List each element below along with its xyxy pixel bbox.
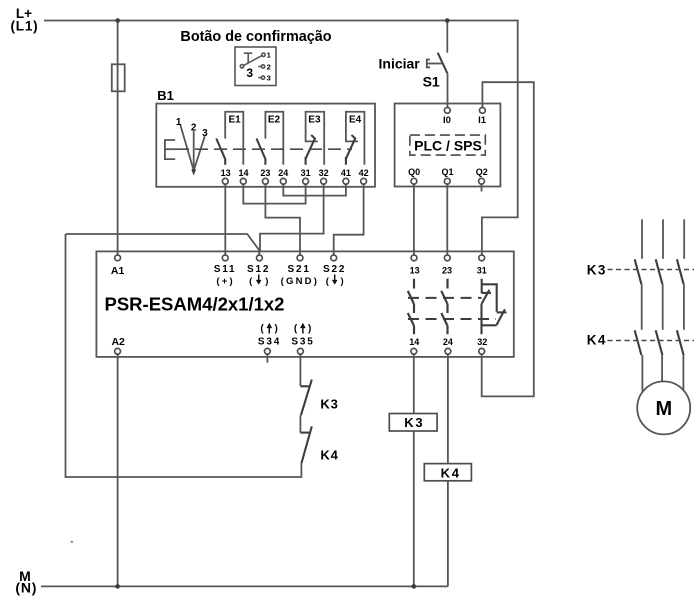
svg-text:S12: S12 (247, 264, 270, 275)
svg-text:K3: K3 (587, 262, 607, 277)
svg-text:Q0: Q0 (408, 167, 420, 177)
svg-text:K3: K3 (320, 397, 338, 412)
svg-text:S34: S34 (258, 336, 281, 347)
svg-text:(L1): (L1) (11, 19, 39, 34)
svg-text:13: 13 (221, 168, 231, 178)
svg-text:(GND): (GND) (281, 276, 319, 287)
svg-text:(N): (N) (15, 580, 37, 596)
svg-text:2: 2 (191, 123, 197, 134)
svg-text:S11: S11 (214, 264, 237, 275)
svg-text:23: 23 (442, 265, 452, 275)
svg-text:13: 13 (410, 265, 420, 275)
svg-text:14: 14 (238, 168, 248, 178)
svg-text:Q1: Q1 (441, 167, 453, 177)
svg-text:): ) (265, 276, 268, 287)
svg-text:E4: E4 (349, 115, 362, 126)
svg-text:A2: A2 (111, 336, 125, 348)
svg-text:PLC / SPS: PLC / SPS (414, 138, 482, 154)
svg-text:S21: S21 (287, 264, 310, 275)
svg-text:PSR-ESAM4/2x1/1x2: PSR-ESAM4/2x1/1x2 (105, 293, 285, 314)
svg-text:41: 41 (341, 168, 351, 178)
svg-text:S22: S22 (323, 264, 346, 275)
svg-text:E1: E1 (228, 115, 241, 126)
svg-text:K4: K4 (587, 333, 607, 348)
svg-text:): ) (308, 324, 311, 335)
svg-text:31: 31 (301, 168, 311, 178)
svg-text:14: 14 (409, 337, 419, 347)
svg-text:32: 32 (319, 168, 329, 178)
svg-text:23: 23 (260, 168, 270, 178)
svg-text:2: 2 (267, 62, 271, 71)
svg-text:): ) (275, 324, 278, 335)
svg-text:32: 32 (477, 337, 487, 347)
svg-text:K4: K4 (441, 466, 461, 481)
svg-text:42: 42 (359, 168, 369, 178)
svg-text:Iniciar: Iniciar (379, 56, 421, 72)
svg-text:): ) (341, 276, 344, 287)
svg-text:I1: I1 (478, 115, 487, 126)
svg-text:E2: E2 (268, 115, 281, 126)
svg-text:S1: S1 (423, 74, 440, 90)
svg-text:Botão de confirmação: Botão de confirmação (180, 29, 331, 45)
svg-text:(+): (+) (216, 276, 234, 287)
svg-text:I0: I0 (443, 115, 451, 126)
svg-text:M: M (655, 398, 672, 420)
svg-text:3: 3 (267, 74, 271, 83)
svg-text:31: 31 (477, 265, 487, 275)
svg-text:A1: A1 (111, 265, 125, 277)
svg-text:E3: E3 (308, 115, 321, 126)
svg-text:1: 1 (176, 117, 182, 128)
svg-text:3: 3 (246, 66, 253, 80)
svg-text:B1: B1 (157, 88, 174, 103)
svg-text:S35: S35 (291, 336, 314, 347)
svg-text:K4: K4 (320, 447, 338, 462)
svg-text:24: 24 (278, 168, 288, 178)
svg-text:1: 1 (267, 51, 271, 60)
svg-text:K3: K3 (404, 415, 424, 430)
svg-text:3: 3 (202, 128, 208, 139)
svg-text:Q2: Q2 (476, 167, 488, 177)
svg-text:24: 24 (443, 337, 453, 347)
